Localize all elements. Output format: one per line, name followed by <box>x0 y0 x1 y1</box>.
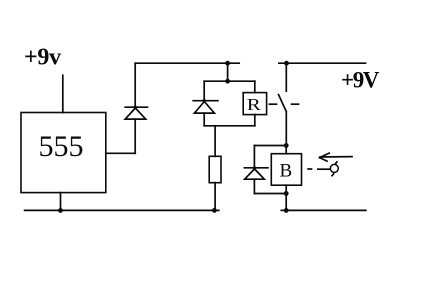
svg-text:B: B <box>280 161 293 182</box>
svg-text:+9v: +9v <box>24 45 61 71</box>
svg-text:555: 555 <box>39 130 84 163</box>
svg-text:+9V: +9V <box>341 68 380 93</box>
svg-text:R: R <box>247 95 262 114</box>
